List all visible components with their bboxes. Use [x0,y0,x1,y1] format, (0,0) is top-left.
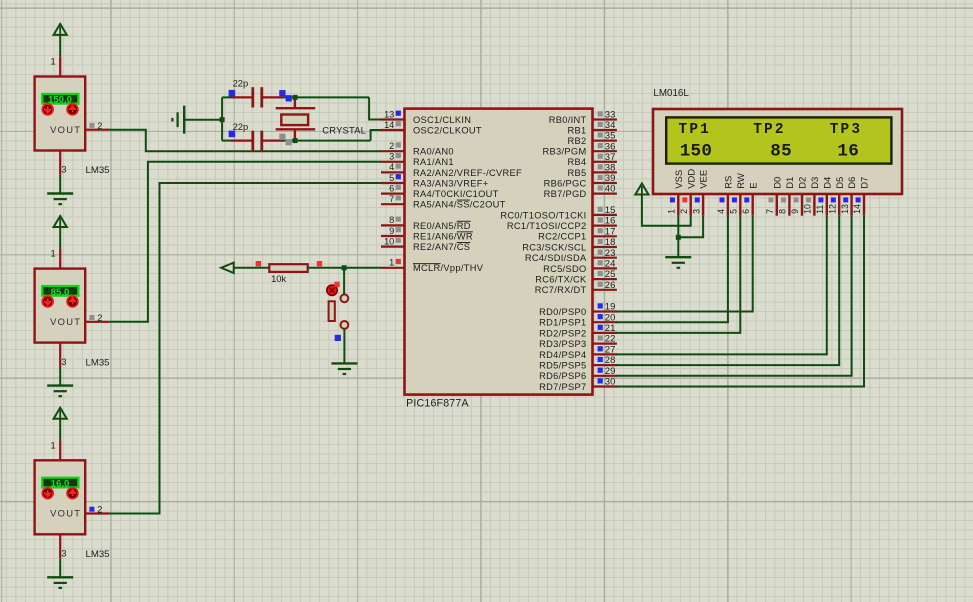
svg-text:7: 7 [389,194,394,204]
svg-text:2: 2 [97,505,102,515]
svg-text:RB6/PGC: RB6/PGC [544,178,587,188]
svg-text:4: 4 [716,209,726,214]
svg-text:RC3/SCK/SCL: RC3/SCK/SCL [522,242,586,252]
svg-text:28: 28 [605,355,616,366]
svg-text:RB5: RB5 [568,168,587,178]
svg-text:16: 16 [605,216,616,227]
svg-text:RD2/PSP2: RD2/PSP2 [539,328,586,338]
svg-text:22: 22 [605,334,616,345]
svg-text:RC5/SDO: RC5/SDO [543,264,586,274]
svg-text:TP2: TP2 [753,122,786,138]
svg-text:11: 11 [815,205,825,214]
svg-text:RB2: RB2 [568,136,587,146]
svg-text:22p: 22p [233,121,249,132]
svg-text:MCLR/Vpp/THV: MCLR/Vpp/THV [413,263,484,273]
svg-text:TP3: TP3 [830,122,863,138]
svg-text:RD5/PSP5: RD5/PSP5 [539,361,586,371]
svg-text:D7: D7 [860,177,871,189]
svg-text:RD3/PSP3: RD3/PSP3 [539,339,586,349]
svg-text:RB1: RB1 [568,125,587,135]
svg-text:E: E [748,182,759,188]
svg-text:3: 3 [691,209,701,214]
svg-text:VEE: VEE [699,170,710,189]
svg-text:RC1/T1OSI/CCP2: RC1/T1OSI/CCP2 [507,221,587,231]
svg-text:17: 17 [605,226,616,237]
svg-text:6: 6 [389,183,394,193]
svg-text:7: 7 [765,209,775,214]
svg-text:1: 1 [667,209,677,214]
svg-text:LM35: LM35 [86,165,110,176]
svg-text:8: 8 [778,209,788,214]
svg-text:OSC2/CLKOUT: OSC2/CLKOUT [413,125,482,135]
svg-text:1: 1 [389,258,394,268]
svg-text:22p: 22p [233,78,249,89]
svg-text:RC4/SDI/SDA: RC4/SDI/SDA [525,253,587,263]
svg-text:RD4/PSP4: RD4/PSP4 [539,350,586,360]
svg-text:RB3/PGM: RB3/PGM [543,147,587,157]
svg-text:D3: D3 [810,177,821,189]
svg-text:14: 14 [384,120,394,130]
svg-text:RA2/AN2/VREF-/CVREF: RA2/AN2/VREF-/CVREF [413,168,522,178]
svg-text:RD0/PSP0: RD0/PSP0 [539,307,586,317]
svg-text:LM35: LM35 [86,549,110,560]
svg-text:35: 35 [605,131,616,142]
svg-text:RC2/CCP1: RC2/CCP1 [538,232,586,242]
svg-text:RC7/RX/DT: RC7/RX/DT [535,285,587,295]
svg-text:24: 24 [605,259,616,270]
svg-text:RE1/AN6/WR: RE1/AN6/WR [413,231,473,241]
svg-text:D1: D1 [785,177,796,189]
svg-text:PIC16F877A: PIC16F877A [406,397,469,409]
svg-text:29: 29 [605,366,616,377]
svg-text:D4: D4 [822,177,833,189]
svg-text:150: 150 [680,141,713,161]
svg-text:RC6/TX/CK: RC6/TX/CK [535,275,587,285]
svg-text:RB4: RB4 [568,157,587,167]
svg-text:RA1/AN1: RA1/AN1 [413,157,454,167]
svg-text:RC0/T1OSO/T1CKI: RC0/T1OSO/T1CKI [500,210,586,220]
svg-text:20: 20 [605,312,616,323]
svg-text:VDD: VDD [686,169,697,189]
svg-text:1: 1 [50,249,55,259]
svg-text:23: 23 [605,248,616,259]
svg-text:15: 15 [605,205,616,216]
svg-text:RS: RS [724,176,735,189]
svg-text:1: 1 [50,440,55,450]
svg-text:D0: D0 [772,177,783,189]
svg-text:13: 13 [384,109,394,119]
svg-text:25: 25 [605,269,616,280]
svg-text:VOUT: VOUT [50,508,81,519]
svg-text:3: 3 [61,357,66,367]
svg-text:RW: RW [736,173,747,189]
svg-text:27: 27 [605,345,616,356]
svg-text:RB0/INT: RB0/INT [549,115,587,125]
svg-text:RA4/T0CKI/C1OUT: RA4/T0CKI/C1OUT [413,189,499,199]
svg-text:VSS: VSS [674,170,685,189]
svg-text:2: 2 [389,141,394,151]
svg-text:14: 14 [852,204,862,214]
svg-text:2: 2 [97,313,102,323]
svg-text:10: 10 [803,204,813,214]
svg-text:VOUT: VOUT [50,124,81,135]
svg-text:85: 85 [770,141,792,161]
svg-text:30: 30 [605,377,616,388]
svg-text:34: 34 [605,120,616,131]
svg-text:2: 2 [679,209,689,214]
svg-text:19: 19 [605,302,616,313]
svg-text:D2: D2 [798,177,809,189]
svg-text:16: 16 [837,141,859,161]
svg-text:26: 26 [605,280,616,291]
svg-text:RA0/AN0: RA0/AN0 [413,147,454,157]
svg-text:8: 8 [389,215,394,225]
svg-text:D6: D6 [847,177,858,189]
svg-text:10: 10 [384,236,394,246]
svg-text:3: 3 [61,165,66,175]
svg-text:3: 3 [61,549,66,559]
svg-text:10k: 10k [271,273,286,284]
svg-text:RB7/PGD: RB7/PGD [544,189,587,199]
svg-text:1: 1 [50,57,55,67]
svg-text:4: 4 [389,162,394,172]
svg-text:RD6/PSP6: RD6/PSP6 [539,371,586,381]
svg-text:9: 9 [790,209,800,214]
svg-text:D5: D5 [835,177,846,189]
svg-text:85.0: 85.0 [51,287,70,298]
svg-text:OSC1/CLKIN: OSC1/CLKIN [413,115,471,125]
svg-text:33: 33 [605,110,616,121]
svg-text:5: 5 [729,209,739,214]
svg-text:2: 2 [97,121,102,131]
svg-text:LM016L: LM016L [653,88,689,99]
svg-text:LM35: LM35 [86,357,110,368]
svg-text:40: 40 [605,184,616,195]
svg-text:38: 38 [605,163,616,174]
svg-text:RA5/AN4/SS/C2OUT: RA5/AN4/SS/C2OUT [413,200,506,210]
svg-text:37: 37 [605,152,616,163]
svg-text:VOUT: VOUT [50,316,81,327]
svg-text:RE0/AN5/RD: RE0/AN5/RD [413,221,471,231]
svg-text:RA3/AN3/VREF+: RA3/AN3/VREF+ [413,178,488,188]
svg-text:16.0: 16.0 [51,479,70,490]
svg-text:12: 12 [827,204,837,214]
svg-text:9: 9 [389,226,394,236]
svg-text:36: 36 [605,141,616,152]
svg-text:21: 21 [605,323,616,334]
svg-text:39: 39 [605,173,616,184]
svg-text:5: 5 [389,173,394,183]
svg-text:TP1: TP1 [679,122,712,138]
svg-text:CRYSTAL: CRYSTAL [322,125,366,136]
svg-text:RD7/PSP7: RD7/PSP7 [539,382,586,392]
svg-text:RE2/AN7/CS: RE2/AN7/CS [413,242,470,252]
svg-text:18: 18 [605,237,616,248]
svg-text:150.0: 150.0 [48,95,72,106]
svg-text:3: 3 [389,152,394,162]
svg-text:6: 6 [741,209,751,214]
svg-text:13: 13 [840,204,850,214]
svg-text:RD1/PSP1: RD1/PSP1 [539,318,586,328]
